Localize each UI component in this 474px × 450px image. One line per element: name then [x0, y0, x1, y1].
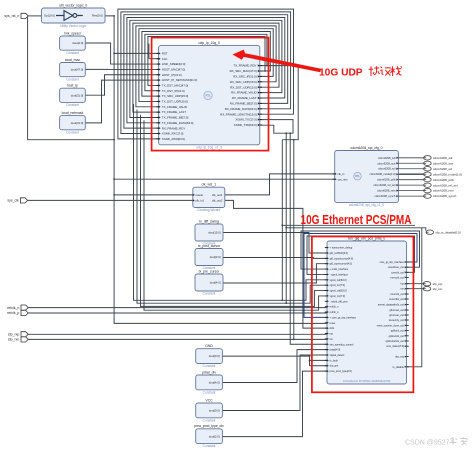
svg-text:- xgmii_interface: - xgmii_interface [330, 273, 349, 276]
wire xgmii tx box [260, 120, 293, 134]
wire loop net 8 (top bundle) [139, 29, 273, 102]
wire sys_rst_n branch down left [28, 16, 115, 140]
svg-text:resetdone_out: resetdone_out [388, 266, 404, 269]
svg-text:sfp_rxp: sfp_rxp [8, 333, 20, 337]
svg-text:areset_datapathclk_out: areset_datapathclk_out [378, 304, 404, 307]
svg-text:xgmii_txd[63:0]: xgmii_txd[63:0] [330, 279, 347, 282]
svg-text:TX_FRAME_BE[7:0]: TX_FRAME_BE[7:0] [162, 116, 189, 120]
svg-text:udp_ip_10g_0: udp_ip_10g_0 [198, 41, 220, 45]
svg-text:RST: RST [162, 52, 168, 56]
pins cdcm right [370, 156, 399, 198]
svg-text:sfp_txn: sfp_txn [433, 287, 443, 291]
module clk_wiz_1 [193, 183, 225, 213]
svg-text:cdcm6208_pdb: cdcm6208_pdb [377, 178, 396, 182]
svg-text:cdcm6208_ref_sel: cdcm6208_ref_sel [433, 183, 458, 187]
svg-text:TX_DST_MAC[47:0]: TX_DST_MAC[47:0] [162, 84, 189, 88]
svg-text:xgmii_rxd[63:0]: xgmii_rxd[63:0] [330, 290, 347, 293]
constant tx_post_cursor [195, 244, 223, 270]
svg-text:Constant: Constant [66, 77, 79, 81]
constant tx_diff_swing [195, 219, 223, 245]
svg-text:RX_SRC_UDP[15:0]: RX_SRC_UDP[15:0] [230, 80, 257, 84]
svg-text:TX_SRC_UDP[15:0]: TX_SRC_UDP[15:0] [162, 94, 189, 98]
svg-text:XGMII_RXC[7:0]: XGMII_RXC[7:0] [162, 132, 184, 136]
constant VCC [196, 398, 223, 422]
wire vertical to pcs region 1 [281, 140, 283, 226]
svg-text:Constant: Constant [203, 444, 216, 448]
constant local_mac [60, 58, 86, 82]
svg-text:cdcm6208_mode[1:0]: cdcm6208_mode[1:0] [370, 172, 396, 176]
svg-text:HOST_IP[31:0]: HOST_IP[31:0] [162, 73, 182, 77]
svg-text:+ transceiver_debug: + transceiver_debug [330, 247, 353, 250]
wire loop net 5 (top bundle) [130, 20, 282, 117]
pins cdcm left [335, 173, 337, 175]
svg-text:CLK: CLK [162, 57, 168, 61]
wire horizontal above pcs 2 / sfp_tx_disable run [286, 227, 422, 229]
svg-text:cdcm6208_rstn: cdcm6208_rstn [433, 189, 454, 193]
svg-text:GND: GND [205, 344, 213, 348]
wire loop net 6 (top bundle) [133, 23, 279, 112]
svg-text:RX_SRC_IP[31:0]: RX_SRC_IP[31:0] [233, 75, 256, 79]
port cdcm6208_scl [424, 167, 432, 171]
wire pma_pmd_type_div net [222, 371, 327, 436]
svg-text:RX_FRAME_BE[7:0]: RX_FRAME_BE[7:0] [230, 102, 257, 106]
svg-text:dout[15:0]: dout[15:0] [208, 231, 221, 235]
port sys_clk [20, 198, 27, 203]
svg-text:CSDN @9527: CSDN @9527 [405, 440, 450, 447]
svg-text:sys_rst_n: sys_rst_n [4, 14, 19, 18]
svg-text:refclk_p: refclk_p [7, 311, 19, 315]
svg-text:Constant: Constant [66, 130, 79, 134]
svg-text:VCC: VCC [205, 398, 213, 402]
svg-text:tx_pre_cursor: tx_pre_cursor [199, 269, 221, 273]
annotation arrow 10G UDP [233, 50, 322, 73]
svg-text:tx_disable: tx_disable [393, 366, 405, 369]
wire link_speed to LINK_SPEED [85, 43, 158, 64]
svg-text:RX_FRAME_DATA[63:0]: RX_FRAME_DATA[63:0] [225, 107, 257, 111]
constant tx_pre_cursor [195, 269, 223, 295]
svg-text:Clocking Wizard: Clocking Wizard [197, 208, 220, 212]
wire tx_diff_swing to gt0_txdiffctrl [223, 233, 327, 253]
svg-text:cdcm6208_synch: cdcm6208_synch [433, 194, 457, 198]
wire pcs loop blue interface bus [304, 234, 417, 318]
constant local_netmask [60, 111, 86, 134]
wire xgmii wrap 2 [137, 110, 327, 304]
svg-text:cdcm6208_sce: cdcm6208_sce [377, 161, 396, 165]
svg-text:pma_pmd_type[2:0]: pma_pmd_type[2:0] [330, 370, 352, 373]
svg-text:rxrecclk_out: rxrecclk_out [390, 276, 404, 279]
pins pcs left [325, 247, 357, 374]
port sfp_rxp [21, 332, 28, 337]
wire loop net 10 [145, 34, 267, 90]
module cdcm6208_spi_cfg_0 [335, 146, 399, 207]
constant link_speed [60, 31, 86, 55]
svg-text:sfp_txp: sfp_txp [433, 282, 443, 286]
constant pma_pmd_type_div [194, 424, 224, 448]
svg-text:sim_speedup_control: sim_speedup_control [330, 343, 354, 346]
wire tx_post_cursor to gt0_txpostcursor [223, 257, 327, 260]
svg-text:RX_DST_UDP[15:0]: RX_DST_UDP[15:0] [230, 85, 257, 89]
port cdcm6208_ref_sel [424, 183, 432, 187]
svg-text:Constant: Constant [66, 103, 79, 107]
svg-text:core_gt_drp_interface: core_gt_drp_interface [380, 261, 405, 264]
wire VCC net [222, 355, 327, 411]
svg-text:TX_DST_IP[31:0]: TX_DST_IP[31:0] [162, 89, 185, 93]
wire local_mac to HOST_MAC [85, 68, 158, 70]
svg-text:cdcm6208_scl: cdcm6208_scl [433, 167, 453, 171]
svg-text:10G UDP: 10G UDP [319, 68, 363, 79]
svg-text:HOST_IP_NETMASK[31:0]: HOST_IP_NETMASK[31:0] [162, 78, 197, 82]
svg-text:dout[4:0]: dout[4:0] [210, 281, 221, 285]
wire pcs loop gray inner [307, 236, 415, 274]
svg-text:rxp: rxp [330, 333, 334, 336]
svg-text:cdcm6208_ref_sel: cdcm6208_ref_sel [373, 183, 395, 187]
port refclk_p [21, 310, 28, 315]
wire refclk_n [28, 307, 327, 309]
svg-text:Constant: Constant [203, 390, 216, 394]
wire sfp_tx_disable [407, 228, 422, 367]
wire sys_clk to clk_in1 [28, 199, 193, 201]
port sfp_tx_disable [426, 230, 434, 234]
wire sys_rst_n to inverter [28, 15, 41, 17]
svg-text:qplloutrefclk_out: qplloutrefclk_out [386, 340, 405, 343]
wire refclk_p [28, 312, 327, 314]
wire reset net from util_vector_logic Res [105, 16, 327, 324]
svg-text:dout[31:0]: dout[31:0] [71, 121, 84, 125]
wire sfp_rxn [28, 338, 327, 340]
wire loop net 11 [148, 37, 265, 86]
svg-text:cdcm6208_rstn: cdcm6208_rstn [377, 189, 396, 193]
port cdcm6208_sdi [424, 156, 432, 160]
inverter util_vector_logic_0 [42, 3, 106, 23]
svg-text:local_mac: local_mac [65, 58, 81, 62]
wire sfp_txp [407, 283, 424, 285]
wire CLK stub [149, 58, 159, 60]
svg-text:txuserrdy_out: txuserrdy_out [389, 319, 404, 322]
svg-text:LINK_SPEED[2:0]: LINK_SPEED[2:0] [162, 62, 186, 66]
svg-text:RX_SRC_MAC[47:0]: RX_SRC_MAC[47:0] [230, 69, 257, 73]
svg-text:clk_in: clk_in [338, 172, 345, 176]
gate NOT symbol [56, 11, 83, 21]
svg-text:prtad[4:0]: prtad[4:0] [330, 349, 341, 352]
svg-text:gt0_txpostcursor[4:0]: gt0_txpostcursor[4:0] [330, 257, 354, 260]
svg-text:10G Ethernet PCS/PMA (10GBASE-: 10G Ethernet PCS/PMA (10GBASE-R/KR) [343, 380, 390, 383]
wire loop net 9 (top bundle) [142, 32, 270, 97]
svg-text:pma_pmd_type_div: pma_pmd_type_div [194, 424, 224, 428]
svg-text:cdcm6208_pdb: cdcm6208_pdb [433, 178, 454, 182]
wire prtad_div net [222, 350, 327, 383]
wire loop net 3 (top bundle) [124, 15, 288, 128]
svg-text:qplllock_out: qplllock_out [391, 330, 405, 333]
wire local_netmask to HOST_IP_NETMASK [85, 80, 158, 123]
wire sfp_txn [407, 288, 424, 290]
svg-text:TX_FRAME_VALID: TX_FRAME_VALID [162, 105, 187, 109]
svg-text:XGMII_TXD[63:0]: XGMII_TXD[63:0] [234, 123, 257, 127]
svg-text:TX_FRAME_DATA[63:0]: TX_FRAME_DATA[63:0] [162, 121, 194, 125]
module ten_gig_eth_pcs_pma_0 [327, 236, 407, 384]
constant host_ip [60, 84, 86, 108]
svg-text:HOST_MAC[47:0]: HOST_MAC[47:0] [162, 68, 185, 72]
svg-text:gttxreset_out: gttxreset_out [389, 309, 404, 312]
svg-text:RX_FRAME_LAST: RX_FRAME_LAST [232, 96, 257, 100]
port cdcm6208_rstn [424, 188, 432, 192]
svg-text:local_netmask: local_netmask [62, 111, 84, 115]
svg-text:+ core_gt_drp_interface: + core_gt_drp_interface [330, 316, 357, 319]
svg-text:dclk: dclk [330, 327, 335, 330]
svg-text:dout[0:0]: dout[0:0] [209, 354, 220, 358]
svg-text:RX_FRAME_VALID: RX_FRAME_VALID [231, 91, 257, 95]
svg-text:Constant: Constant [203, 292, 216, 296]
svg-text:reset: reset [330, 322, 336, 325]
svg-text:TX_FRAME_RDY: TX_FRAME_RDY [233, 64, 256, 68]
wire long vertical to sim_speedup_control [290, 133, 327, 344]
RTL icon cdcm [354, 172, 362, 180]
svg-text:refclk_n: refclk_n [330, 306, 339, 309]
wire tx_pre_cursor to gt0_txprecursor [223, 264, 327, 283]
svg-text:tx_post_cursor: tx_post_cursor [198, 244, 221, 248]
svg-text:dout[2:0]: dout[2:0] [72, 41, 83, 45]
wire cdcm6208 outputs [398, 157, 423, 159]
svg-text:cdcm6208_sce: cdcm6208_sce [433, 161, 454, 165]
port refclk_n [21, 305, 28, 310]
wire xgmii wrap 1 [134, 104, 328, 300]
wire pcs loop gray outer [301, 231, 420, 269]
wire long vertical right of udp [293, 140, 295, 340]
svg-text:prtad_div: prtad_div [202, 370, 216, 374]
svg-text:refclk_n: refclk_n [7, 306, 19, 310]
svg-text:dout[31:0]: dout[31:0] [71, 93, 84, 97]
wire xgmii wrap 4 [144, 120, 327, 310]
pins udp right [220, 64, 262, 127]
svg-text:dout[2:0]: dout[2:0] [209, 434, 220, 438]
svg-text:resetn: resetn [195, 193, 203, 197]
wire TX_FRAME_RDY wrap [260, 66, 298, 140]
wire loop net 2 (top bundle) [121, 12, 291, 134]
svg-text:dout[47:0]: dout[47:0] [71, 68, 84, 72]
svg-text:dout[4:0]: dout[4:0] [209, 381, 220, 385]
module udp_ip_10g_0 [159, 41, 260, 149]
wire xgmii wrap 3 [141, 115, 328, 307]
svg-text:rxn: rxn [330, 338, 334, 341]
svg-text:clk_in1: clk_in1 [195, 199, 204, 203]
svg-text:dout[4:0]: dout[4:0] [210, 255, 221, 259]
wire host_ip to HOST_IP [85, 75, 158, 95]
port sfp_txn [423, 287, 431, 291]
port sfp_txp [423, 282, 431, 286]
svg-text:link_speed: link_speed [64, 31, 80, 35]
svg-text:util_vector_logic_0: util_vector_logic_0 [59, 3, 87, 7]
pins pcs right [377, 261, 409, 369]
svg-text:core_status[7:0]: core_status[7:0] [386, 345, 404, 348]
svg-text:gtrxreset_out: gtrxreset_out [389, 314, 404, 317]
port cdcm6208_sce [424, 161, 432, 165]
port cdcm6208_synch [424, 194, 432, 198]
svg-text:tx_diff_swing: tx_diff_swing [199, 219, 219, 223]
wire clk_out1 to cdcm clk_in [225, 174, 335, 195]
svg-text:cdcm6208_sdi: cdcm6208_sdi [378, 156, 396, 160]
svg-text:cdcm6208_spi_cfg_0: cdcm6208_spi_cfg_0 [351, 146, 383, 150]
svg-text:- refclk_diff_port: - refclk_diff_port [330, 300, 348, 303]
svg-text:udp_ip_10g_v1_3: udp_ip_10g_v1_3 [197, 145, 223, 149]
svg-text:XGMII_TXC[7:0]: XGMII_TXC[7:0] [235, 118, 256, 122]
port cdcm6208_mode[1:0] [424, 172, 432, 176]
constant GND [196, 344, 223, 368]
svg-text:sys_rstn: sys_rstn [338, 177, 349, 181]
svg-text:TX_DST_UDP[15:0]: TX_DST_UDP[15:0] [162, 100, 188, 104]
svg-text:Utility Vector Logic: Utility Vector Logic [60, 24, 87, 28]
svg-text:clk_wiz_1: clk_wiz_1 [201, 183, 216, 187]
port sys_rst_n [21, 13, 28, 18]
annotation red box pcs [312, 237, 414, 393]
svg-text:cdcm6208_sdi: cdcm6208_sdi [433, 156, 453, 160]
wire clk_out2 to PCS dclk [225, 200, 327, 328]
svg-text:clk_out1: clk_out1 [212, 193, 223, 197]
svg-text:Op1[0:0]: Op1[0:0] [44, 14, 55, 18]
svg-text:RX_FRAME_LENGTH[15:0]: RX_FRAME_LENGTH[15:0] [220, 112, 257, 116]
svg-text:xgmii_txc[7:0]: xgmii_txc[7:0] [330, 284, 346, 287]
svg-text:10G Ethernet PCS/PMA: 10G Ethernet PCS/PMA [301, 212, 412, 227]
svg-text:gt0_txdiffctrl[3:0]: gt0_txdiffctrl[3:0] [330, 252, 349, 255]
wire loop net 7 (top bundle) [136, 26, 276, 107]
svg-text:qplloutclk_out: qplloutclk_out [389, 335, 405, 338]
port sfp_rxn [21, 337, 28, 342]
svg-text:reset_counter_done_out: reset_counter_done_out [377, 324, 404, 327]
svg-text:Constant: Constant [203, 418, 216, 422]
svg-text:txusrclk_out: txusrclk_out [391, 293, 405, 296]
svg-text:signal_detect: signal_detect [330, 354, 345, 357]
svg-text:TX_FRAME_LAST: TX_FRAME_LAST [162, 110, 186, 114]
svg-text:Constant: Constant [66, 51, 79, 55]
wire horizontal above pcs 1 [282, 224, 415, 226]
svg-text:XGMII_RXD[63:0]: XGMII_RXD[63:0] [162, 137, 185, 141]
RTL icon udp [204, 91, 212, 99]
wire loop net 1 (top bundle) [118, 9, 294, 139]
wire sfp_rxp [28, 333, 327, 335]
wire loop net 4 (top bundle) [127, 18, 285, 123]
svg-text:cdcm6208_synch: cdcm6208_synch [374, 194, 395, 198]
pins udp left [156, 52, 197, 141]
wire GND net [222, 355, 309, 357]
svg-text:RTL: RTL [355, 174, 360, 178]
svg-text:+ mdio_interface: + mdio_interface [330, 268, 349, 271]
svg-text:sfp_rxn: sfp_rxn [8, 338, 20, 342]
svg-text:coreclk_out: coreclk_out [391, 271, 404, 274]
svg-text:Constant: Constant [203, 364, 216, 368]
svg-text:RTL: RTL [206, 93, 211, 97]
wire vertical to pcs region 2 [285, 133, 287, 228]
svg-text:Res[0:0]: Res[0:0] [92, 14, 103, 18]
svg-text:clk_out2: clk_out2 [212, 199, 223, 203]
svg-text:tx_fault: tx_fault [330, 359, 338, 362]
annotation red box udp [152, 38, 269, 151]
svg-text:sfp_tx_disable[0:0]: sfp_tx_disable[0:0] [435, 230, 460, 234]
svg-text:txusrclk2_out: txusrclk2_out [389, 298, 404, 301]
svg-text:cdcm6208_mode[1:0]: cdcm6208_mode[1:0] [433, 172, 462, 176]
svg-text:sys_clk: sys_clk [7, 199, 19, 203]
svg-text:cdcm6208_scl: cdcm6208_scl [378, 167, 396, 171]
svg-text:RX_FRAME_RDY: RX_FRAME_RDY [162, 126, 186, 130]
svg-text:host_ip: host_ip [67, 84, 78, 88]
svg-text:gt0_txprecursor[4:0]: gt0_txprecursor[4:0] [330, 263, 353, 266]
svg-text:xgmii_rxc[7:0]: xgmii_rxc[7:0] [330, 295, 346, 298]
constant prtad_div [196, 370, 223, 394]
svg-text:drp_req: drp_req [395, 356, 404, 359]
svg-text:cdcm6208_spi_cfg_v1_0: cdcm6208_spi_cfg_v1_0 [349, 203, 384, 207]
port cdcm6208_pdb [424, 177, 432, 181]
svg-text:drp_gnt: drp_gnt [330, 365, 339, 368]
svg-text:dout[0:0]: dout[0:0] [209, 409, 220, 413]
svg-text:refclk_p: refclk_p [330, 311, 339, 314]
